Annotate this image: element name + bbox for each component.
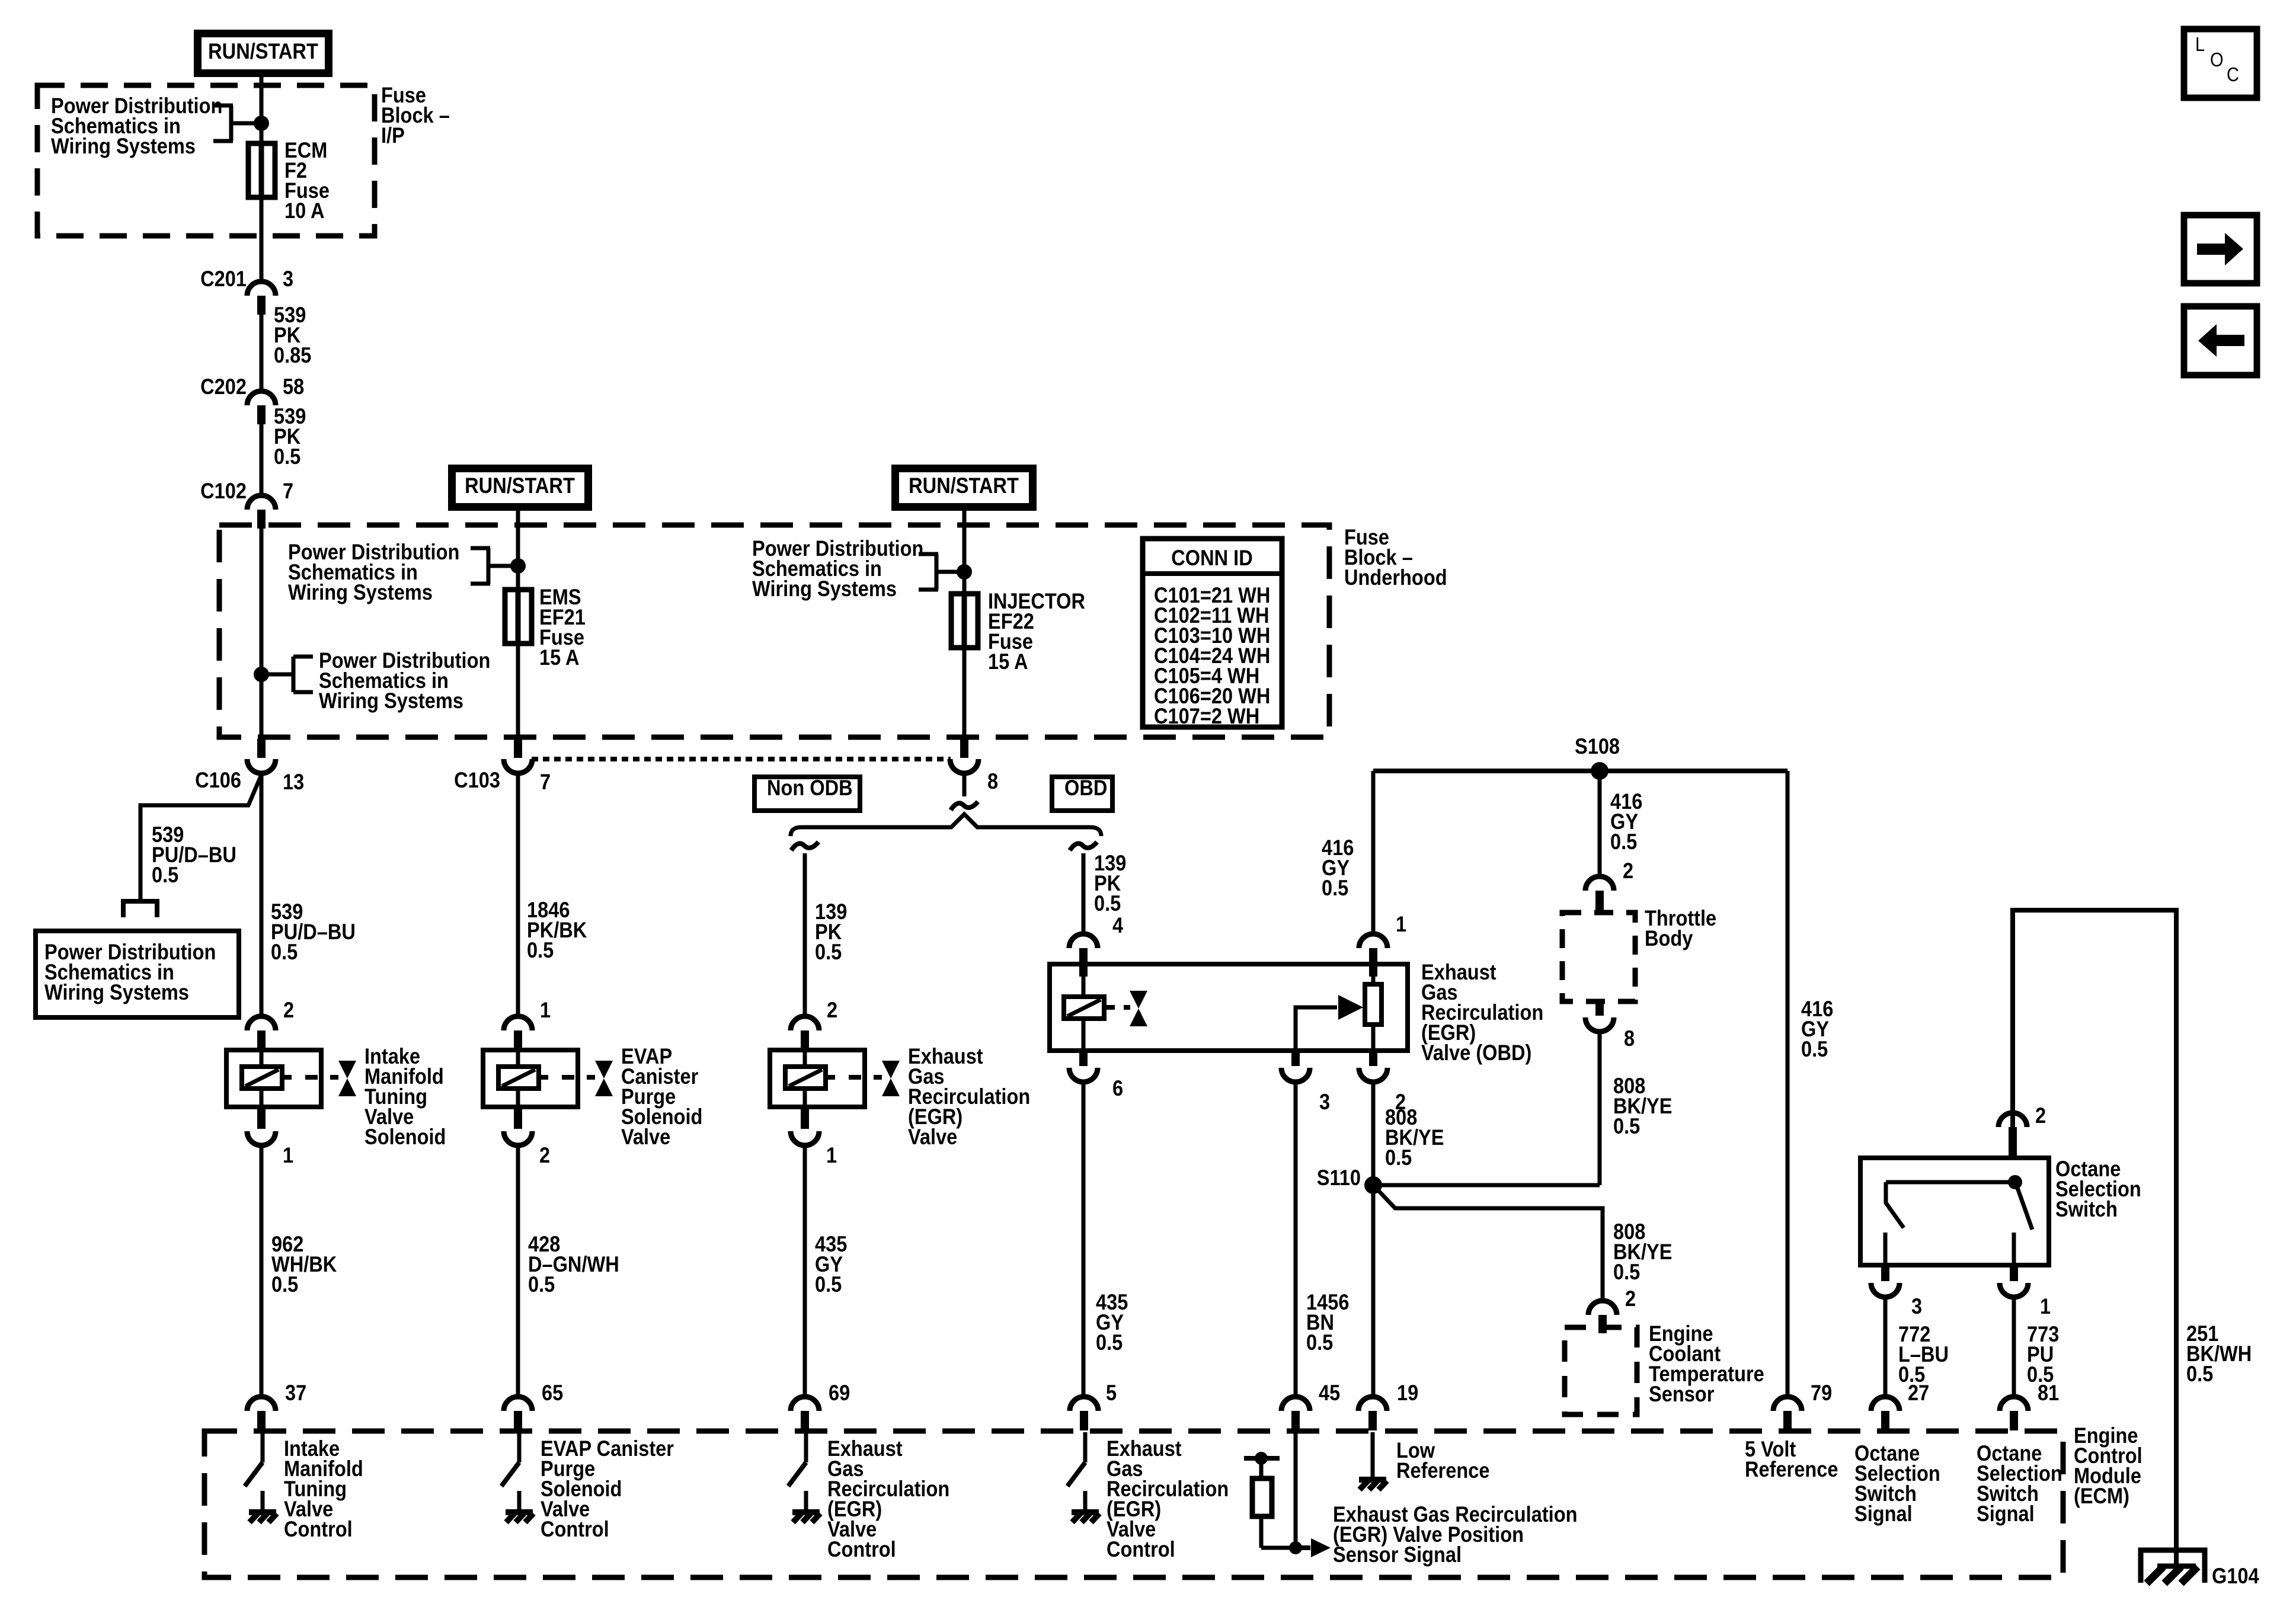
connector ECM pin 69	[791, 1397, 819, 1411]
ECM driver switch pin 441	[261, 1432, 265, 1462]
ground G104	[2141, 1550, 2205, 1583]
wire S108 to pin79	[1786, 771, 1790, 1397]
wire S110 diagonal to ECT	[1373, 1185, 1603, 1302]
connector pin 3 EGR OBD	[1291, 1051, 1300, 1066]
ECM driver switch pin 874	[517, 1432, 522, 1462]
svg-text:69: 69	[829, 1381, 850, 1405]
EGR OBD valve box	[1050, 964, 1408, 1051]
arrow right box	[2184, 215, 2257, 283]
label Non ODB box	[754, 777, 860, 811]
wire throttle pin8 down	[1598, 1030, 1602, 1185]
svg-text:0.5: 0.5	[271, 1272, 298, 1297]
ECT sensor dashed box	[1565, 1327, 1637, 1414]
wire octane pin3 to ECM27	[1884, 1297, 1888, 1397]
throttle body dashed box	[1562, 913, 1635, 1001]
svg-text:C107=2 WH: C107=2 WH	[1154, 704, 1259, 728]
svg-text:65: 65	[542, 1381, 563, 1405]
wire col4 runstart to fuse	[962, 511, 967, 594]
svg-text:0.5: 0.5	[1094, 891, 1121, 916]
svg-text:Non ODB: Non ODB	[767, 776, 853, 800]
connector bottom of EVAP canister purge solenoid valve	[514, 1107, 522, 1129]
branch terminal bracket	[121, 899, 159, 904]
connector ECM pin 45	[1281, 1397, 1310, 1411]
EGR OBD sensor arrow	[1296, 1007, 1337, 1051]
connector pin 2 of intake manifold tuning valve solenoid	[247, 1016, 276, 1030]
svg-text:0.85: 0.85	[274, 343, 311, 367]
wire pin6 to ECM pin5	[1082, 1081, 1086, 1397]
wire valve3 to pin69	[803, 1145, 807, 1397]
wire octane pin1 to ECM81	[2012, 1297, 2016, 1397]
wire nonOBD branch	[803, 853, 807, 1017]
svg-text:RUN/START: RUN/START	[909, 473, 1019, 498]
svg-text:3: 3	[283, 267, 293, 291]
svg-text:79: 79	[1811, 1381, 1832, 1405]
connector C103	[514, 739, 522, 758]
branch wire to PDS box	[140, 772, 263, 899]
wire valve1 to pin37	[260, 1145, 264, 1397]
svg-text:0.5: 0.5	[274, 444, 300, 469]
svg-text:RUN/START: RUN/START	[465, 473, 575, 498]
svg-text:7: 7	[283, 479, 293, 503]
LOC legend box	[2184, 29, 2257, 98]
svg-text:Signal: Signal	[1854, 1502, 1913, 1526]
svg-text:0.5: 0.5	[271, 940, 298, 964]
intake manifold tuning valve solenoid coil	[260, 1050, 264, 1067]
connector pin 2 ECT sensor	[1588, 1301, 1617, 1315]
svg-text:6: 6	[1112, 1076, 1123, 1100]
svg-text:Wiring Systems: Wiring Systems	[752, 577, 897, 601]
wire break squiggle nonOBD	[791, 842, 818, 850]
svg-text:10 A: 10 A	[284, 199, 325, 223]
svg-text:5: 5	[1106, 1381, 1117, 1405]
svg-text:2: 2	[1623, 859, 1633, 883]
svg-text:13: 13	[283, 770, 304, 794]
wire C106 to valve1	[260, 772, 264, 1017]
svg-text:C: C	[2227, 63, 2239, 85]
svg-text:0.5: 0.5	[815, 1272, 842, 1297]
svg-text:Underhood: Underhood	[1344, 565, 1447, 590]
EVAP canister purge solenoid valve coil	[516, 1050, 520, 1067]
svg-text:19: 19	[1397, 1381, 1418, 1405]
wire break squiggle top	[951, 802, 978, 810]
octane switch right contact	[2016, 1185, 2032, 1230]
svg-text:Control: Control	[284, 1517, 353, 1541]
connector ECM pin 65	[504, 1397, 532, 1411]
power label RUN/START box 1	[194, 30, 332, 77]
svg-text:0.5: 0.5	[1385, 1145, 1412, 1170]
EVAP canister purge solenoid valve valve symbol	[562, 1075, 574, 1080]
svg-text:3: 3	[1911, 1294, 1922, 1318]
connector pin 4 EGR OBD valve	[1069, 934, 1098, 948]
wire S108 down to throttle	[1598, 771, 1602, 878]
svg-text:15 A: 15 A	[988, 649, 1028, 674]
connector pin 1 octane	[2010, 1265, 2018, 1281]
svg-text:0.5: 0.5	[1613, 1260, 1640, 1284]
fuse block I/P dashed box	[37, 85, 375, 236]
bracket node col4	[919, 552, 938, 556]
svg-text:0.5: 0.5	[528, 1272, 555, 1297]
svg-text:L: L	[2195, 33, 2205, 55]
svg-text:45: 45	[1319, 1381, 1340, 1405]
fuse F2 ECM 10A	[259, 146, 264, 197]
svg-text:G104: G104	[2212, 1564, 2259, 1588]
svg-text:1: 1	[1396, 912, 1406, 936]
connector pin 1 of EVAP canister purge solenoid valve	[504, 1016, 532, 1030]
wire OBD branch	[1082, 853, 1086, 934]
ECM driver switch pin 1829	[1083, 1432, 1088, 1462]
EGR OBD position sensor	[1365, 984, 1382, 1025]
svg-text:C103: C103	[454, 768, 500, 792]
wire col1 inside underhood box	[260, 529, 264, 739]
svg-text:0.5: 0.5	[1322, 876, 1348, 900]
svg-text:1: 1	[826, 1143, 837, 1167]
svg-text:Control: Control	[541, 1517, 609, 1541]
connector bottom of intake manifold tuning valve solenoid	[257, 1107, 266, 1129]
svg-text:0.5: 0.5	[1613, 1114, 1640, 1138]
RUN/START box 2	[448, 465, 592, 511]
connector bottom of EGR valve (non OBD)	[801, 1107, 809, 1129]
EGR valve (non OBD) coil	[803, 1050, 807, 1067]
connector C201	[247, 281, 276, 296]
svg-text:8: 8	[987, 769, 998, 793]
ECM dashed box	[204, 1431, 2063, 1577]
connector ECM pin 37	[247, 1397, 276, 1411]
EGR position sensor network	[1294, 1432, 1298, 1548]
junction S108	[1373, 769, 1787, 773]
svg-text:2: 2	[1625, 1286, 1636, 1311]
svg-text:0.5: 0.5	[1610, 830, 1637, 854]
connector ECM pin 81	[2000, 1397, 2028, 1411]
wire fuse to C201	[260, 197, 264, 283]
svg-text:Reference: Reference	[1745, 1457, 1838, 1481]
wire fuse INJ to conn8	[962, 648, 967, 739]
wire valve2 to pin65	[516, 1145, 520, 1397]
split brace	[791, 814, 1101, 836]
fuse INJECTOR EF22 15A	[962, 594, 967, 648]
svg-text:2: 2	[827, 998, 837, 1022]
svg-text:1: 1	[540, 998, 551, 1022]
connector pin 2 of EGR valve (non OBD)	[791, 1016, 819, 1030]
svg-text:Wiring Systems: Wiring Systems	[288, 580, 433, 604]
svg-text:0.5: 0.5	[1096, 1330, 1123, 1355]
dotted line C103 to conn8	[532, 757, 951, 761]
svg-text:C102: C102	[200, 479, 247, 503]
wire col2 runstart to fuse	[516, 511, 520, 590]
EGR OBD coil	[1082, 966, 1086, 997]
svg-text:8: 8	[1624, 1026, 1635, 1051]
EGR valve (non OBD) valve symbol	[849, 1075, 861, 1080]
bracket node col2	[471, 546, 490, 550]
bracket to node on wire col1	[213, 104, 233, 108]
svg-text:OBD: OBD	[1064, 776, 1107, 800]
svg-text:RUN/START: RUN/START	[208, 39, 318, 63]
svg-text:S108: S108	[1575, 734, 1620, 758]
svg-text:37: 37	[285, 1381, 306, 1405]
svg-text:Switch: Switch	[2055, 1197, 2118, 1221]
octane switch common bar	[1886, 1180, 2015, 1185]
wire S110 to throttle pin8 wire	[1373, 1183, 1600, 1188]
power distribution schematics box	[36, 931, 239, 1017]
svg-text:Valve: Valve	[908, 1125, 957, 1149]
right loop wire	[2013, 910, 2176, 1566]
fuse block underhood dashed box	[219, 525, 1329, 737]
svg-text:C106: C106	[195, 768, 241, 792]
octane switch left contact	[1886, 1182, 1904, 1228]
svg-text:Control: Control	[827, 1537, 896, 1561]
wire pin2 to S110	[1371, 1081, 1376, 1185]
svg-text:CONN ID: CONN ID	[1171, 546, 1252, 570]
svg-text:C201: C201	[200, 267, 247, 291]
bracket node col1 underhood	[293, 655, 313, 659]
svg-text:4: 4	[1112, 913, 1124, 937]
svg-text:Reference: Reference	[1396, 1458, 1489, 1483]
svg-text:S110: S110	[1317, 1166, 1361, 1190]
connector ECM pin 5	[1070, 1397, 1098, 1411]
connector ECM pin 79	[1773, 1397, 1802, 1411]
svg-text:27: 27	[1908, 1381, 1929, 1405]
svg-text:81: 81	[2038, 1381, 2059, 1405]
svg-text:(ECM): (ECM)	[2074, 1484, 2129, 1508]
wire pin3 to ECM pin45	[1294, 1081, 1298, 1397]
svg-text:Signal: Signal	[1977, 1502, 2035, 1526]
arrow left box	[2184, 306, 2257, 375]
wire C201 to C202	[260, 315, 264, 392]
EVAP canister purge solenoid valve box	[483, 1050, 578, 1107]
svg-text:1: 1	[2040, 1294, 2051, 1318]
svg-text:7: 7	[540, 770, 551, 794]
wire break squiggle OBD	[1070, 842, 1097, 850]
svg-text:0.5: 0.5	[2186, 1362, 2213, 1386]
svg-text:15 A: 15 A	[539, 645, 580, 670]
wire col1 RUN/START to fuse	[260, 75, 264, 146]
connector pin 2 throttle body	[1585, 876, 1614, 891]
wire conn8 to break	[962, 772, 967, 796]
intake manifold tuning valve solenoid valve symbol	[305, 1075, 318, 1080]
svg-text:0.5: 0.5	[1306, 1330, 1333, 1355]
svg-text:Control: Control	[1107, 1537, 1175, 1561]
svg-text:O: O	[2210, 49, 2224, 71]
svg-text:Sensor: Sensor	[1649, 1382, 1715, 1406]
svg-text:I/P: I/P	[381, 123, 405, 148]
svg-text:58: 58	[283, 375, 304, 399]
wire fuse EMS to C103	[516, 644, 520, 739]
wire S110 down to pin19	[1371, 1185, 1376, 1397]
connector 8	[960, 739, 968, 758]
svg-text:2: 2	[2035, 1103, 2046, 1128]
junction S110	[1364, 1176, 1382, 1194]
connector pin 2 EGR OBD	[1369, 1051, 1377, 1066]
connector C202	[247, 391, 276, 405]
svg-text:2: 2	[539, 1143, 550, 1167]
RUN/START box 3	[891, 465, 1037, 511]
svg-text:Wiring Systems: Wiring Systems	[51, 134, 196, 158]
svg-text:Wiring Systems: Wiring Systems	[319, 689, 463, 713]
connector pin 1 EGR OBD valve	[1359, 934, 1387, 948]
S108 wire down to pin1	[1371, 771, 1376, 935]
wire C202 to C102	[260, 424, 264, 497]
fuse EMS EF21 15A	[516, 590, 521, 644]
svg-text:1: 1	[283, 1143, 293, 1167]
octane switch box	[1860, 1158, 2049, 1265]
svg-text:Valve: Valve	[621, 1125, 670, 1149]
svg-text:Wiring Systems: Wiring Systems	[44, 980, 189, 1004]
svg-text:2: 2	[283, 998, 294, 1022]
svg-text:Valve (OBD): Valve (OBD)	[1421, 1041, 1531, 1065]
CONN ID table	[1143, 539, 1282, 727]
intake manifold tuning valve solenoid box	[226, 1050, 321, 1107]
wire C103 to valve2	[516, 772, 520, 1017]
connector pin 6 EGR OBD	[1079, 1051, 1088, 1066]
EGR OBD valve symbol	[1124, 1005, 1130, 1010]
svg-text:0.5: 0.5	[815, 940, 842, 964]
label OBD box	[1052, 777, 1112, 811]
connector C106	[257, 739, 266, 758]
svg-text:Solenoid: Solenoid	[364, 1125, 446, 1149]
svg-text:3: 3	[1319, 1090, 1330, 1114]
svg-text:Body: Body	[1645, 926, 1693, 950]
connector ECM pin 19	[1358, 1397, 1387, 1411]
ECM driver switch pin 1358	[804, 1432, 808, 1462]
connector pin 3 octane	[1881, 1265, 1889, 1281]
svg-text:C202: C202	[200, 375, 247, 399]
connector pin 2 octane switch	[1998, 1113, 2027, 1127]
svg-text:0.5: 0.5	[1801, 1037, 1828, 1061]
svg-text:Sensor Signal: Sensor Signal	[1333, 1542, 1462, 1567]
ECM pin19 ground	[1371, 1432, 1375, 1477]
EGR valve (non OBD) box	[770, 1050, 865, 1107]
connector C102	[247, 495, 276, 510]
connector ECM pin 27	[1871, 1397, 1900, 1411]
connector pin 8 throttle body	[1595, 1001, 1604, 1016]
svg-text:0.5: 0.5	[152, 863, 178, 887]
svg-text:0.5: 0.5	[527, 938, 554, 962]
